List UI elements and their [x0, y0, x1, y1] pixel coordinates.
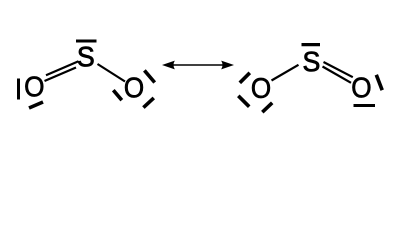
atom O4	[352, 78, 370, 98]
lone pair dash lower-left of O3	[238, 96, 249, 107]
double bond O1=S1 upper line	[46, 61, 79, 75]
lone pair bar above S1	[76, 40, 97, 43]
lone pair dash upper-right of O2	[144, 70, 154, 82]
atom S1	[78, 47, 93, 67]
single bond O3-S2	[272, 65, 299, 81]
lone pair dash lower-left of O2	[113, 90, 122, 100]
lone pair bar below O4	[354, 104, 376, 107]
lone pair dash lower-right of O3	[262, 103, 272, 112]
lone pair dash lower-right of O2	[143, 98, 153, 108]
atom O1	[25, 77, 43, 97]
atom S2	[304, 52, 319, 72]
single bond S1-O2	[98, 64, 126, 82]
lone pair bar above S2	[302, 43, 321, 46]
resonance double-headed arrow	[162, 61, 234, 70]
lone pair dash right of O4	[376, 75, 382, 90]
lone pair bar left of O1	[17, 79, 20, 100]
atom O2	[125, 78, 143, 98]
lone pair dash upper-left of O3	[240, 73, 250, 83]
double bond S2=O4 lower line	[323, 67, 352, 83]
lone pair dash below O1	[29, 102, 43, 108]
double bond O1=S1 lower line	[45, 68, 77, 82]
double bond S2=O4 upper line	[324, 62, 353, 77]
atom O3	[252, 78, 270, 98]
